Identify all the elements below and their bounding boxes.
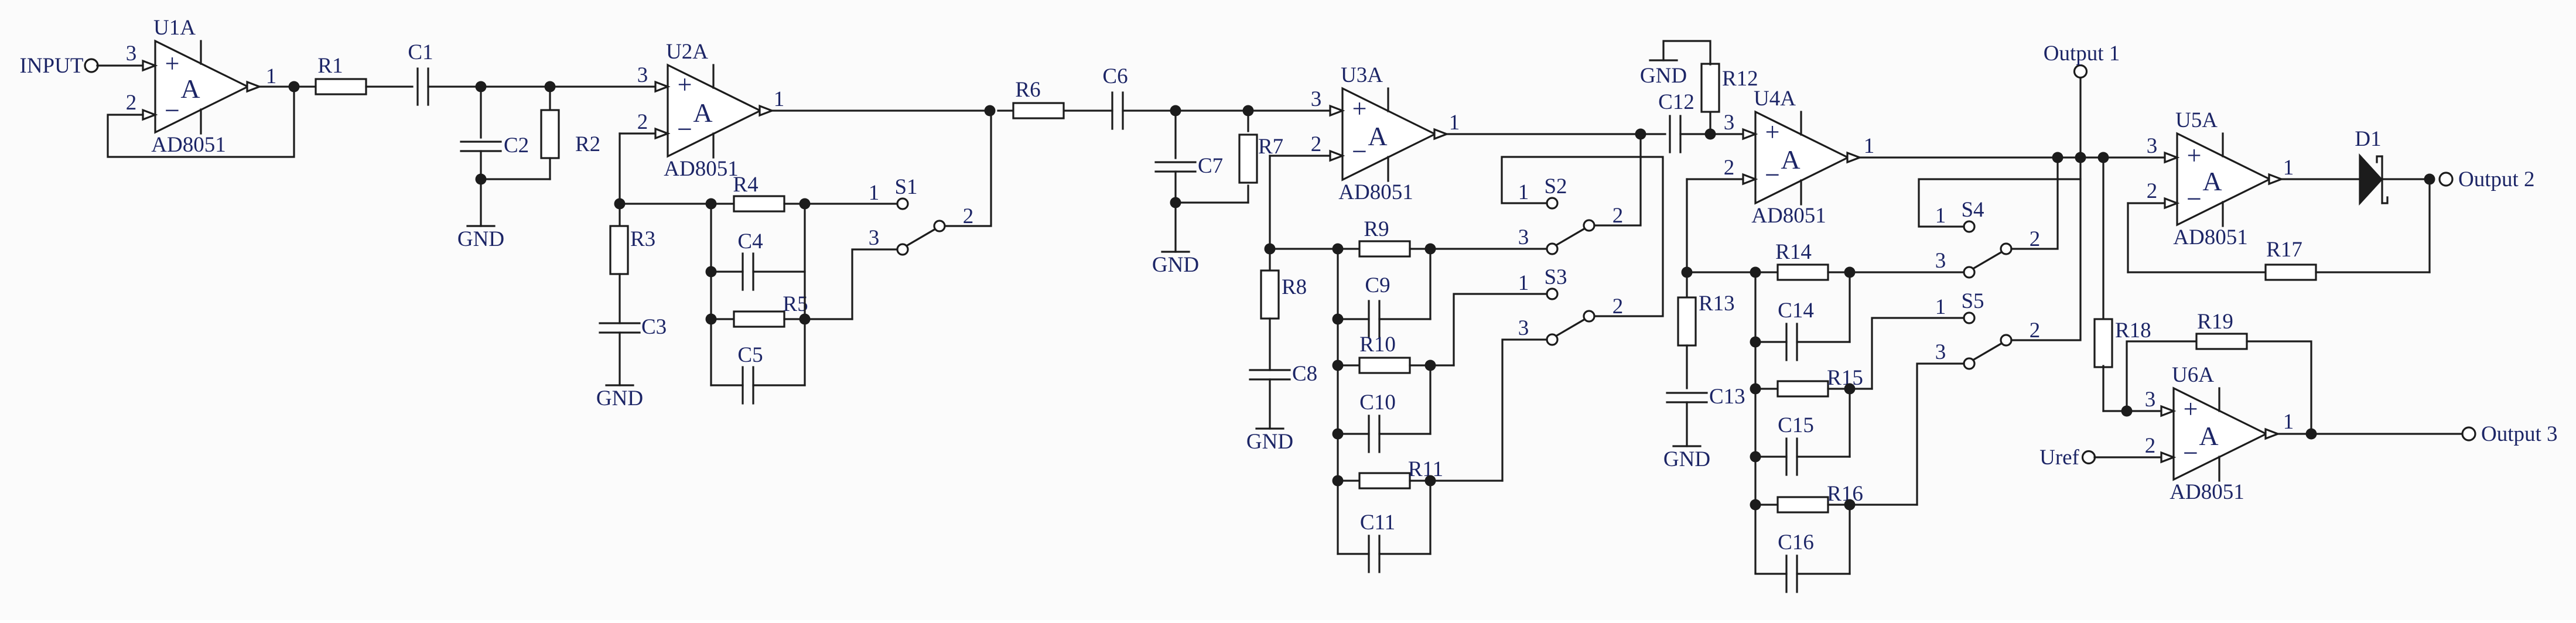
svg-text:C9: C9: [1365, 273, 1390, 297]
svg-text:GND: GND: [457, 227, 504, 251]
svg-text:S3: S3: [1544, 265, 1567, 289]
svg-text:INPUT: INPUT: [20, 54, 84, 78]
svg-text:U3A: U3A: [1341, 63, 1383, 87]
svg-text:A: A: [1368, 121, 1387, 151]
svg-text:1: 1: [1935, 204, 1946, 228]
svg-text:+: +: [2187, 141, 2202, 170]
svg-text:GND: GND: [1246, 430, 1293, 454]
svg-text:1: 1: [2283, 410, 2294, 434]
svg-text:2: 2: [1612, 204, 1624, 228]
svg-text:R10: R10: [1359, 333, 1396, 357]
svg-text:2: 2: [1612, 295, 1624, 319]
svg-text:−: −: [2183, 438, 2198, 468]
svg-text:AD8051: AD8051: [2170, 480, 2244, 504]
svg-text:C15: C15: [1778, 413, 1814, 437]
svg-text:C1: C1: [408, 40, 433, 64]
svg-text:C13: C13: [1709, 385, 1745, 409]
svg-text:R8: R8: [1282, 275, 1307, 299]
svg-text:C8: C8: [1292, 362, 1317, 386]
svg-text:−: −: [165, 95, 180, 125]
svg-text:S2: S2: [1544, 174, 1567, 198]
svg-text:2: 2: [963, 204, 974, 228]
svg-text:R6: R6: [1015, 78, 1040, 102]
svg-text:2: 2: [2030, 319, 2041, 343]
svg-text:GND: GND: [1640, 64, 1687, 88]
svg-text:+: +: [165, 49, 180, 78]
svg-text:1: 1: [1449, 111, 1460, 135]
svg-text:3: 3: [1311, 87, 1322, 111]
svg-text:A: A: [2202, 166, 2222, 196]
svg-text:2: 2: [1311, 132, 1322, 156]
svg-text:R3: R3: [630, 227, 655, 251]
svg-text:Output 1: Output 1: [2044, 42, 2120, 66]
svg-text:U5A: U5A: [2175, 108, 2218, 132]
svg-text:3: 3: [869, 226, 880, 250]
svg-text:+: +: [2184, 395, 2198, 423]
svg-text:GND: GND: [596, 386, 643, 410]
svg-text:R9: R9: [1364, 217, 1389, 241]
svg-text:+: +: [1352, 94, 1367, 123]
svg-text:1: 1: [1864, 134, 1875, 158]
svg-text:+: +: [1765, 118, 1780, 146]
svg-text:3: 3: [1935, 249, 1946, 273]
svg-text:AD8051: AD8051: [151, 133, 226, 157]
svg-text:R1: R1: [317, 54, 343, 78]
svg-text:R2: R2: [575, 132, 600, 156]
svg-text:−: −: [2186, 184, 2202, 214]
svg-text:Output 3: Output 3: [2481, 422, 2558, 446]
svg-text:R17: R17: [2266, 238, 2302, 262]
svg-text:1: 1: [2283, 156, 2294, 180]
svg-text:R19: R19: [2197, 310, 2233, 334]
svg-text:U2A: U2A: [666, 40, 708, 64]
svg-text:U1A: U1A: [153, 16, 196, 40]
svg-text:AD8051: AD8051: [1338, 180, 1413, 204]
svg-text:2: 2: [637, 110, 648, 134]
svg-text:1: 1: [1518, 180, 1529, 204]
svg-text:3: 3: [1724, 111, 1735, 135]
svg-text:C5: C5: [737, 343, 763, 367]
svg-text:AD8051: AD8051: [2173, 225, 2247, 249]
svg-text:GND: GND: [1663, 447, 1710, 471]
svg-text:A: A: [2199, 421, 2218, 451]
svg-text:S4: S4: [1961, 198, 1984, 222]
svg-text:3: 3: [2145, 388, 2156, 412]
svg-text:3: 3: [126, 42, 137, 66]
svg-text:AD8051: AD8051: [1751, 204, 1826, 228]
svg-text:3: 3: [637, 63, 648, 87]
svg-text:R11: R11: [1408, 457, 1443, 481]
svg-text:GND: GND: [1152, 253, 1199, 277]
svg-text:S5: S5: [1961, 289, 1984, 313]
svg-text:−: −: [1352, 136, 1367, 166]
svg-text:C14: C14: [1778, 299, 1814, 323]
svg-text:R4: R4: [733, 173, 758, 197]
svg-text:3: 3: [1935, 340, 1946, 364]
svg-text:C4: C4: [737, 230, 763, 254]
svg-text:U6A: U6A: [2172, 363, 2214, 387]
svg-text:C2: C2: [504, 133, 529, 158]
svg-text:R12: R12: [1722, 67, 1758, 91]
svg-text:−: −: [1765, 160, 1780, 190]
svg-text:C10: C10: [1359, 391, 1396, 415]
svg-text:1: 1: [774, 87, 785, 111]
svg-text:1: 1: [869, 181, 880, 205]
svg-text:C11: C11: [1360, 511, 1395, 535]
svg-text:2: 2: [126, 91, 137, 115]
svg-text:R13: R13: [1699, 292, 1735, 316]
svg-text:AD8051: AD8051: [664, 157, 738, 181]
svg-text:C12: C12: [1658, 90, 1694, 114]
svg-text:3: 3: [2147, 134, 2158, 158]
svg-text:3: 3: [1518, 316, 1529, 340]
svg-text:3: 3: [1518, 225, 1529, 249]
svg-text:C3: C3: [641, 315, 667, 339]
svg-text:A: A: [693, 98, 712, 128]
svg-text:1: 1: [1518, 271, 1529, 295]
svg-text:2: 2: [1724, 156, 1735, 180]
svg-text:C6: C6: [1102, 64, 1128, 88]
svg-text:R14: R14: [1775, 240, 1812, 264]
svg-text:D1: D1: [2355, 127, 2381, 151]
svg-text:U4A: U4A: [1754, 87, 1796, 111]
svg-text:2: 2: [2147, 179, 2158, 203]
svg-text:A: A: [1781, 145, 1800, 174]
svg-text:C7: C7: [1198, 154, 1223, 178]
svg-text:−: −: [677, 114, 692, 144]
svg-text:S1: S1: [894, 175, 917, 199]
svg-text:1: 1: [266, 64, 277, 88]
svg-text:+: +: [678, 70, 692, 99]
svg-text:A: A: [180, 74, 200, 104]
svg-text:Output 2: Output 2: [2458, 167, 2535, 191]
svg-text:1: 1: [1935, 295, 1946, 319]
svg-text:R18: R18: [2115, 319, 2151, 343]
svg-text:2: 2: [2145, 434, 2156, 458]
svg-text:C16: C16: [1778, 530, 1814, 554]
svg-text:Uref: Uref: [2039, 446, 2079, 470]
svg-text:2: 2: [2030, 227, 2041, 251]
